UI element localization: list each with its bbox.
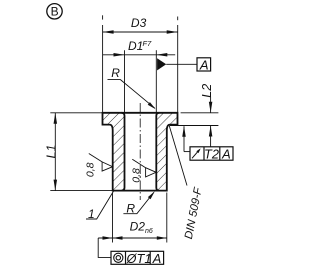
roughness symbol body 0.8: [84, 154, 112, 178]
concentricity symbol: [114, 253, 123, 262]
dimension D3 extension lines: [102, 25, 104, 112]
view label circle B: [47, 4, 62, 19]
dimension L1 line: [54, 113, 56, 191]
svg-text:n6: n6: [145, 228, 153, 235]
dimension L2 line upper: [210, 97, 212, 113]
bore left wall: [122, 113, 125, 191]
dimension D2 leader from frame: [103, 236, 113, 240]
svg-text:0,8: 0,8: [131, 168, 143, 183]
note 1 leader: [86, 191, 114, 220]
runout tolerance frame: [190, 147, 233, 162]
radius R top leader: [108, 80, 155, 109]
concentricity tolerance frame: [111, 251, 164, 266]
svg-text:A: A: [152, 251, 162, 266]
dimension D2 line: [98, 237, 167, 239]
datum A box: [197, 58, 211, 71]
datum A leader: [166, 63, 197, 65]
svg-text:A: A: [221, 147, 231, 162]
svg-text:0,8: 0,8: [84, 162, 96, 177]
svg-text:L2: L2: [200, 84, 214, 98]
section hatch left: [103, 113, 125, 191]
runout symbol: [192, 150, 200, 159]
svg-text:T2: T2: [204, 147, 219, 162]
datum A triangle: [157, 58, 166, 70]
bore right wall: [156, 113, 159, 191]
radius R bottom leader: [123, 192, 153, 213]
section hatch right: [156, 113, 177, 191]
svg-text:A: A: [199, 58, 209, 73]
dimension D3 extension stubs: [102, 15, 104, 19]
svg-text:D1: D1: [128, 39, 143, 53]
svg-text:R: R: [111, 66, 120, 80]
bushing outer profile: [103, 113, 178, 191]
DIN 509-F leader: [169, 126, 187, 186]
dimension D1 line: [103, 54, 176, 56]
dimension L2 extension lines: [181, 112, 219, 114]
svg-text:B: B: [51, 5, 59, 19]
centerline: [139, 103, 141, 200]
dimension D2 extension lines: [112, 193, 114, 243]
svg-text:L1: L1: [44, 145, 58, 159]
svg-text:F7: F7: [143, 39, 153, 48]
svg-text:D3: D3: [131, 16, 147, 30]
dimension L1 extension lines: [50, 112, 102, 114]
svg-text:D2: D2: [130, 219, 146, 233]
dimension D1 extension lines: [124, 50, 126, 112]
runout leader arrow: [183, 126, 185, 151]
dimension L2 line lower: [210, 126, 212, 147]
svg-text:ØT1: ØT1: [126, 251, 152, 266]
dimension D3 line: [103, 31, 178, 33]
roughness symbol bore 0.8: [131, 159, 156, 182]
